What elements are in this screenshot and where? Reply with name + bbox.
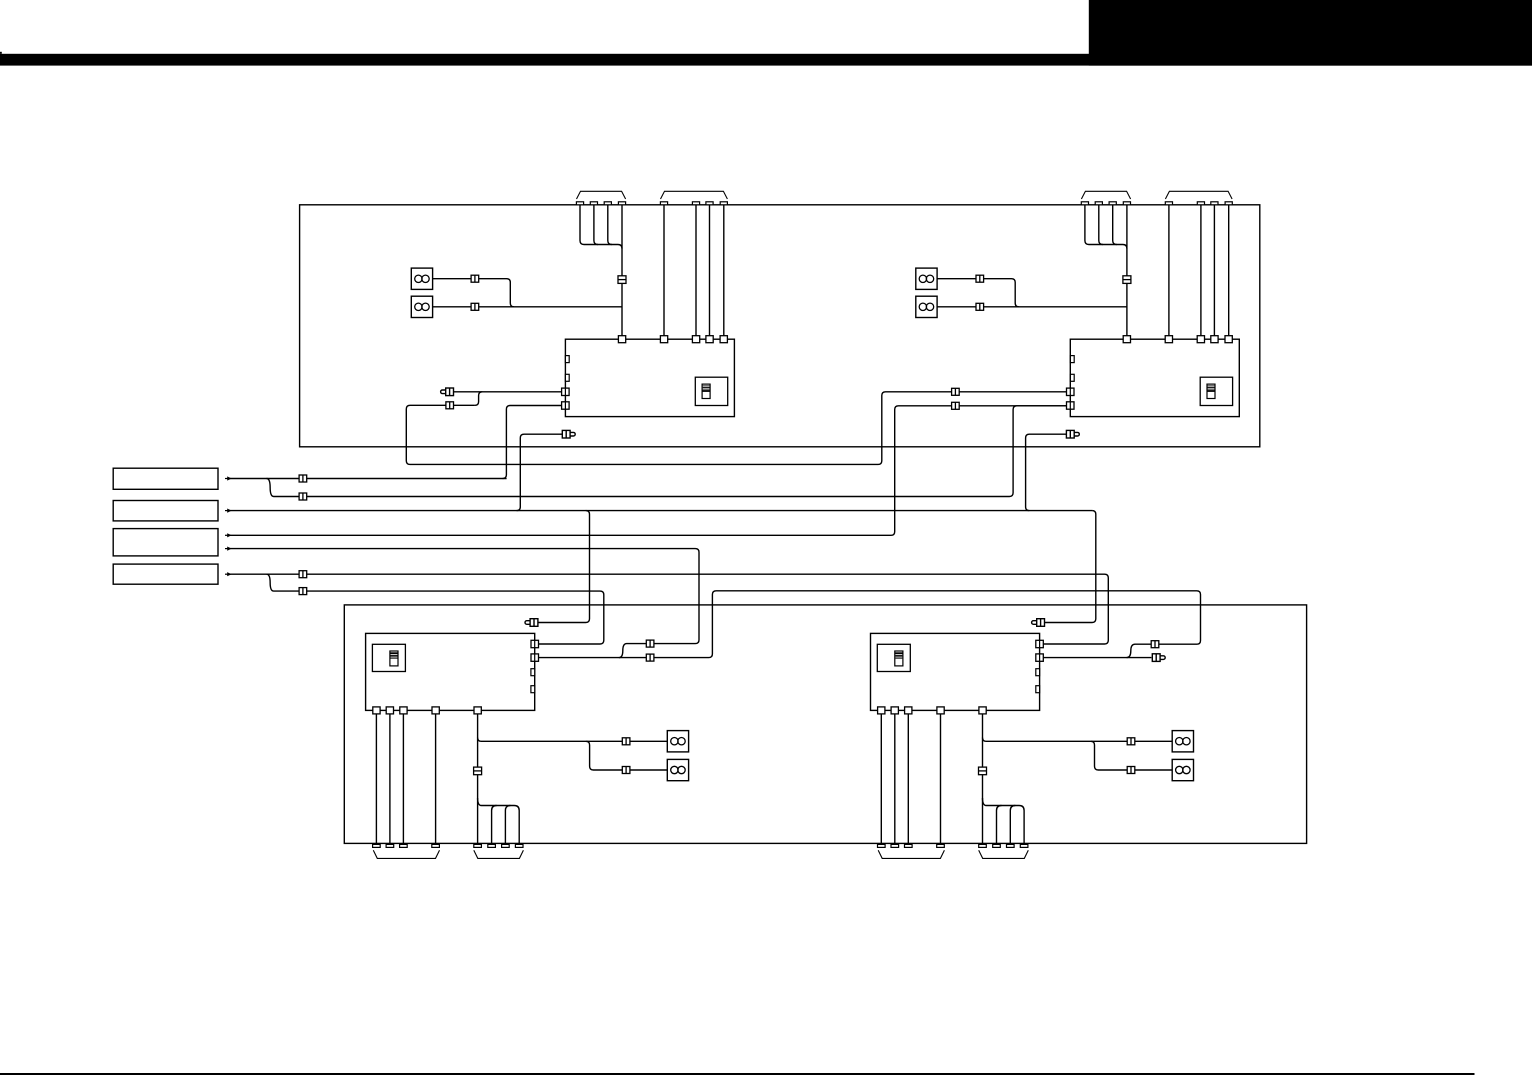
connector shell brace CN-B4 [979, 850, 1029, 858]
connector icon of U1 [702, 384, 710, 398]
stub pin A of L2 [1036, 669, 1040, 676]
speaker SP2 [411, 296, 432, 317]
bottom pin 3 of L2 [905, 707, 912, 714]
edge terminal 4 of L1 [432, 844, 440, 847]
wire B3 line1 to U2 pin B [229, 406, 1066, 536]
wire CN-T4 pin4 to U2 [1228, 205, 1230, 336]
connector CN12 [952, 388, 960, 395]
wire CN-T2 pin4 to U1 [723, 205, 725, 336]
speaker SP7 [1172, 731, 1193, 752]
pin P2 of CN-T1 [590, 202, 597, 205]
wire CN2 route to U2 pin B [307, 406, 1067, 497]
wire CN-T2 pin2 to U1 [695, 205, 697, 336]
edge terminal 3 of L2 [905, 844, 913, 847]
top pin 5 of U2 [1225, 336, 1232, 343]
pin P1 of CN-T1 [576, 202, 583, 205]
top pin 1 of U2 [1123, 336, 1130, 343]
bottom pin 2 of L1 [386, 707, 393, 714]
stub pin B of L2 [1036, 686, 1040, 693]
pin P3 of CN-T2 [706, 202, 713, 205]
source box B1 [113, 468, 218, 489]
top pin 3 of U1 [692, 336, 699, 343]
connector CN20 on SP7 wire [1127, 738, 1135, 745]
branch wire down to RCA J3 [538, 511, 590, 623]
connector shell brace CN-B2 [474, 850, 524, 858]
RCA plug J1 [441, 388, 454, 396]
edge terminal 2 of L1 [386, 844, 394, 847]
connector CN2 [299, 493, 307, 500]
edge terminal 5 of L2 [979, 844, 987, 847]
right pin B of L2 [1036, 654, 1044, 661]
edge terminal 7 of L2 [1007, 844, 1015, 847]
top pin 1 of U1 [618, 336, 625, 343]
footer rule [0, 1073, 1475, 1075]
connector CN14 [646, 640, 654, 647]
speaker SP5 [667, 731, 688, 752]
wire L1 pin3 down [402, 714, 404, 844]
connector shell brace CN-T1 [577, 191, 626, 199]
left pin A of U2 [1067, 388, 1075, 395]
connector CN10 on SP4 wire [976, 303, 984, 310]
connector icon of L2 [895, 651, 903, 666]
header black bar [0, 54, 1532, 66]
edge terminal 6 of L2 [993, 844, 1001, 847]
pin P2 of CN-T4 [1197, 202, 1204, 205]
connector shell brace CN-T2 [661, 191, 728, 199]
top pin 2 of U1 [660, 336, 667, 343]
branch jog wire B1 [267, 479, 299, 497]
speaker SP6 [667, 759, 688, 780]
bottom chassis box B [344, 605, 1306, 844]
edge terminal 1 of L1 [373, 844, 381, 847]
connector CN9 on SP3 wire [976, 275, 984, 282]
branch jog wire B4 [267, 574, 299, 591]
pin P2 of CN-T2 [692, 202, 699, 205]
connector CN21 on SP8 wire [1127, 767, 1135, 774]
connector CN17 on L2 pin5 [979, 767, 987, 775]
amplifier unit L1 [366, 633, 535, 710]
wire L1 pin5 harness [478, 714, 668, 844]
harness wires CN-T3 to unit U2 [1085, 205, 1127, 336]
arrow of B2 [225, 509, 232, 513]
connector CN4 [299, 588, 307, 595]
source box B2 [113, 501, 218, 521]
edge terminal 6 of L1 [488, 844, 496, 847]
stub pin B of U2 [1070, 374, 1074, 381]
wire B4 main [229, 574, 1108, 644]
speaker SP8 [1172, 759, 1193, 780]
speaker SP4 [916, 296, 937, 317]
branch wire up to RCA J4 [1026, 434, 1067, 510]
wire SP1/SP2 to harness [433, 279, 622, 307]
wire L2 pin5 harness [983, 714, 1173, 844]
connector shell brace CN-T3 [1081, 191, 1130, 199]
harness wires CN-T1 to unit U1 [580, 205, 622, 336]
edge terminal 8 of L1 [515, 844, 523, 847]
inner connector box of L1 [372, 644, 405, 671]
top pin 2 of U2 [1165, 336, 1172, 343]
connector CN6 on harness [1123, 276, 1131, 284]
wire CN11 route to U2 pin A [406, 392, 1066, 465]
top pin 5 of U1 [720, 336, 727, 343]
stub pin B of U1 [565, 374, 569, 381]
right pin A of L1 [531, 640, 539, 647]
bottom pin 4 of L1 [432, 707, 439, 714]
connector CN3 [299, 571, 307, 578]
connector CN7 on SP1 wire [471, 275, 479, 282]
header black title block [1089, 0, 1532, 66]
wire L2 pin2 down [894, 714, 896, 844]
top pin 4 of U1 [706, 336, 713, 343]
bottom pin 5 of L2 [979, 707, 986, 714]
bottom pin 1 of L1 [373, 707, 380, 714]
bottom pin 4 of L2 [937, 707, 944, 714]
bottom pin 2 of L2 [891, 707, 898, 714]
amplifier unit U1 [565, 339, 734, 416]
connector CN11 [446, 402, 454, 409]
wire B1 to U1 pin B [229, 478, 506, 480]
connector CN13 [952, 402, 960, 409]
wire SP3/SP4 to harness [938, 279, 1127, 307]
edge terminal 3 of L1 [400, 844, 408, 847]
edge terminal 7 of L1 [502, 844, 510, 847]
branch wire up to RCA J2 [517, 434, 563, 510]
wire L2 pin B to RCA J6 [1044, 657, 1152, 659]
wire L2 pin1 down [880, 714, 882, 844]
edge terminal 4 of L2 [937, 844, 945, 847]
arrow of B3 line 2 [225, 547, 232, 551]
bottom pin 3 of L1 [400, 707, 407, 714]
wire CN14 S-jog [619, 644, 646, 658]
RCA plug J2 [562, 430, 575, 438]
top pin 4 of U2 [1211, 336, 1218, 343]
arrow of B1 [225, 476, 232, 480]
wire L2 pin4 down [940, 714, 942, 844]
branch jog wire to CN11 [475, 392, 482, 406]
right pin B of L1 [531, 654, 539, 661]
RCA plug J6 [1152, 654, 1165, 662]
pin P2 of CN-T3 [1095, 202, 1102, 205]
pin P4 of CN-T4 [1225, 202, 1232, 205]
wire CN4 route to L1 pin A [307, 591, 604, 644]
pin P3 of CN-T4 [1211, 202, 1218, 205]
stub pin A of L1 [531, 669, 535, 676]
pin P1 of CN-T3 [1081, 202, 1088, 205]
pin P4 of CN-T2 [720, 202, 727, 205]
wire CN-T4 pin3 to U2 [1213, 205, 1215, 336]
pin P4 of CN-T1 [618, 202, 625, 205]
wire L2 pin3 down [907, 714, 909, 844]
RCA plug J4 [1066, 430, 1079, 438]
connector shell brace CN-B3 [878, 850, 944, 858]
pin P1 of CN-T4 [1165, 202, 1172, 205]
edge terminal 8 of L2 [1020, 844, 1028, 847]
wire CN-T4 pin1 to U2 [1168, 205, 1170, 336]
connector CN22 on cross-link [646, 654, 654, 661]
left pin B of U1 [562, 402, 570, 409]
connector CN19 on SP6 wire [622, 767, 630, 774]
wire L1 pin1 down [375, 714, 377, 844]
top pin 3 of U2 [1197, 336, 1204, 343]
stub pin A of U1 [565, 356, 569, 363]
speaker SP3 [916, 268, 937, 289]
pin P3 of CN-T1 [604, 202, 611, 205]
wire CN-T4 pin2 to U2 [1200, 205, 1202, 336]
connector icon of U2 [1207, 384, 1215, 398]
left pin A of U1 [562, 388, 570, 395]
right pin A of L2 [1036, 640, 1044, 647]
arrow of B3 line 1 [225, 533, 232, 537]
pin P3 of CN-T3 [1109, 202, 1116, 205]
connector icon of L1 [390, 651, 398, 666]
edge terminal 2 of L2 [891, 844, 899, 847]
wire CN-T2 pin3 to U1 [709, 205, 711, 336]
connector CN15 [1151, 641, 1159, 648]
wire B2 main [229, 510, 1092, 512]
left pin B of U2 [1067, 402, 1075, 409]
source box B4 [113, 564, 218, 584]
connector CN1 [299, 475, 307, 482]
connector CN5 on harness [618, 276, 626, 284]
bottom pin 1 of L2 [878, 707, 885, 714]
edge terminal 1 of L2 [878, 844, 886, 847]
source box B3 [113, 529, 218, 556]
connector CN18 on SP5 wire [622, 738, 630, 745]
amplifier unit U2 [1070, 339, 1239, 416]
top chassis box A [300, 205, 1260, 447]
stub pin B of L1 [531, 686, 535, 693]
amplifier unit L2 [871, 633, 1040, 710]
speaker SP1 [411, 268, 432, 289]
inner connector box of U2 [1200, 377, 1232, 405]
pin P4 of CN-T3 [1123, 202, 1130, 205]
pin P1 of CN-T2 [660, 202, 667, 205]
wire L1 pin B cross-link [539, 591, 1201, 658]
connector CN16 on L1 pin5 [474, 767, 482, 775]
RCA plug J3 [525, 619, 538, 627]
inner connector box of L2 [877, 644, 910, 671]
wire B3 line2 [229, 549, 699, 644]
wire CN15 S-jog [1127, 644, 1152, 657]
inner connector box of U1 [695, 377, 727, 405]
edge terminal 5 of L1 [474, 844, 482, 847]
RCA plug J5 [1032, 619, 1045, 627]
wire J1 to U1 pin A [453, 391, 561, 393]
wire U1 pin B to source line [503, 406, 562, 479]
connector shell brace CN-B1 [373, 850, 439, 858]
bottom pin 5 of L1 [474, 707, 481, 714]
wire B2 end corner to RCA J5 [1044, 511, 1095, 623]
connector CN8 on SP2 wire [471, 303, 479, 310]
wire CN-T2 pin1 to U1 [663, 205, 665, 336]
connector shell brace CN-T4 [1165, 191, 1232, 199]
wire L1 pin4 down [435, 714, 437, 844]
arrow of B4 [225, 572, 232, 576]
header left tick [0, 52, 2, 54]
stub pin A of U2 [1070, 356, 1074, 363]
wire L1 pin2 down [389, 714, 391, 844]
